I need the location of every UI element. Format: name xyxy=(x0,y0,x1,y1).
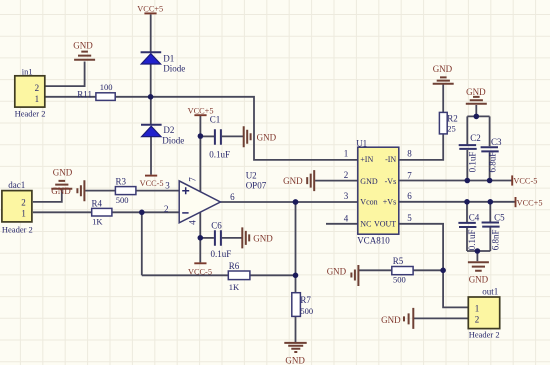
svg-text:GND: GND xyxy=(469,274,489,284)
wire R6 to node D xyxy=(250,274,296,276)
svg-text:3: 3 xyxy=(344,191,349,201)
svg-text:2: 2 xyxy=(164,204,169,214)
svg-text:R5: R5 xyxy=(393,256,404,266)
wire C6 to GND xyxy=(222,237,242,239)
wire C4 bottom xyxy=(466,228,468,251)
capacitor C1 xyxy=(215,129,221,145)
junction C5 top xyxy=(488,199,494,205)
resistor R3 xyxy=(115,187,135,195)
capacitor C6 xyxy=(215,230,221,246)
svg-text:0.1uF: 0.1uF xyxy=(467,230,477,251)
power port VCC+5 right xyxy=(515,197,517,207)
wire GND stem to node F xyxy=(475,105,477,116)
connector dac1 xyxy=(2,191,32,222)
svg-text:8: 8 xyxy=(407,149,412,159)
junction node C xyxy=(139,210,145,216)
IC U1 VCA810 xyxy=(358,147,399,234)
svg-text:R7: R7 xyxy=(300,295,311,305)
svg-text:VCC+5: VCC+5 xyxy=(137,5,163,14)
capacitor C4 xyxy=(458,223,476,227)
ground symbol below C4 C5 (earth) xyxy=(468,262,489,270)
svg-text:GND: GND xyxy=(466,87,486,97)
svg-text:U2: U2 xyxy=(246,171,257,181)
wire VCC+5 to D1 cathode xyxy=(150,14,152,52)
connector out1 xyxy=(468,297,499,329)
svg-text:C1: C1 xyxy=(210,115,221,125)
power port VCC+5 top xyxy=(144,12,156,14)
ground symbol at out1 pin2 (horizontal earth) xyxy=(404,308,413,329)
wire C4 top xyxy=(466,202,468,222)
ground symbol at U1 pin2 (horizontal earth) xyxy=(307,170,314,191)
svg-text:+Vs: +Vs xyxy=(383,198,396,207)
svg-text:VOUT: VOUT xyxy=(374,220,396,229)
pin names U1 left xyxy=(360,155,378,229)
wire feedback to R6 xyxy=(142,274,229,276)
svg-text:VCC-5: VCC-5 xyxy=(188,267,212,276)
wire node C feedback vertical xyxy=(141,212,143,275)
pin numbers U1 left xyxy=(344,149,349,224)
pin names U1 right xyxy=(374,155,396,229)
op-amp U2 xyxy=(179,181,220,223)
svg-text:6.8nF: 6.8nF xyxy=(490,230,500,251)
wire C5 bottom xyxy=(489,227,491,251)
wire node F to C2 and C3 tops xyxy=(467,115,489,117)
wire op-amp pin4 to node E xyxy=(199,212,201,237)
wire U1 pin8 to R2 xyxy=(399,134,444,160)
svg-text:1: 1 xyxy=(35,94,40,104)
power port VCC+5 at C1 xyxy=(194,114,206,116)
wire D2 anode to VCC-5 xyxy=(150,135,152,174)
junction C4 top xyxy=(464,199,470,205)
svg-text:C6: C6 xyxy=(211,221,222,231)
capacitor C5 xyxy=(482,223,500,227)
wire GND to U1 pin2 xyxy=(315,180,358,182)
svg-text:C2: C2 xyxy=(470,133,481,143)
svg-text:R2: R2 xyxy=(447,113,458,123)
svg-text:GND: GND xyxy=(433,64,453,74)
svg-text:3: 3 xyxy=(165,181,170,191)
ground symbol at in1 (inverted earth) xyxy=(74,52,95,60)
wire GND to R5 xyxy=(359,269,392,271)
ground symbol above C2 C3 (inverted earth) xyxy=(466,97,487,104)
svg-text:GND: GND xyxy=(257,133,277,143)
svg-text:100: 100 xyxy=(100,82,113,92)
svg-text:GND: GND xyxy=(51,186,71,196)
wire R3 to op-amp pin3 xyxy=(136,190,179,192)
svg-text:D1: D1 xyxy=(163,53,174,63)
junction C3 bottom xyxy=(487,178,493,184)
wire node D to R7 xyxy=(295,275,297,292)
svg-text:2: 2 xyxy=(21,197,26,207)
junction node D xyxy=(293,273,299,279)
svg-text:7: 7 xyxy=(187,177,197,182)
power port VCC-5 right xyxy=(511,175,513,185)
ground symbol above R2 (inverted earth) xyxy=(433,77,454,83)
wire C3 bottom to pin7 row xyxy=(489,153,491,181)
wire VCC+5 stem to node B xyxy=(199,115,201,136)
junction node F xyxy=(474,114,480,120)
wire D1 anode to node A xyxy=(150,64,152,97)
svg-text:6: 6 xyxy=(407,191,412,201)
diode D1 xyxy=(141,52,162,64)
junction op-amp output xyxy=(293,199,299,205)
wire GND to out1 pin2 xyxy=(414,317,468,319)
junction C2 bottom xyxy=(465,178,471,184)
wire node D to op-amp output row xyxy=(295,202,297,275)
power port VCC-5 at op-amp pin4 xyxy=(194,262,206,264)
svg-text:U1: U1 xyxy=(356,138,367,148)
resistor R2 xyxy=(439,112,447,133)
svg-text:25: 25 xyxy=(447,123,456,133)
power port VCC-5 below D2 xyxy=(145,175,157,177)
wire node B to C1 xyxy=(200,135,214,137)
ground symbol at C1 (horizontal earth) xyxy=(244,126,251,147)
svg-text:C4: C4 xyxy=(469,213,480,223)
wire C5 top xyxy=(489,202,491,222)
svg-text:Header 2: Header 2 xyxy=(2,224,33,234)
svg-text:4: 4 xyxy=(344,213,349,223)
svg-text:1: 1 xyxy=(475,304,480,314)
wire R5 to node H xyxy=(413,269,443,271)
svg-text:dac1: dac1 xyxy=(8,180,25,190)
svg-text:0.1uF: 0.1uF xyxy=(467,152,477,173)
pin numbers U1 right xyxy=(407,149,412,224)
wire U1 pin4 stub xyxy=(326,223,358,225)
wire R2 to GND stem xyxy=(442,85,444,113)
wire R7 to GND stem xyxy=(295,316,297,343)
wire node A to D2 cathode xyxy=(150,97,152,125)
wire C2 top xyxy=(466,116,468,144)
svg-text:-Vs: -Vs xyxy=(385,177,397,186)
wire C3 top xyxy=(489,116,491,146)
ground symbol below R7 (earth) xyxy=(284,343,306,352)
junction node H xyxy=(440,268,446,274)
svg-text:Diode: Diode xyxy=(162,136,184,146)
svg-text:Header 2: Header 2 xyxy=(15,109,46,119)
wire GND to R3 xyxy=(85,190,115,192)
ground symbol left of R3 (horizontal earth) xyxy=(77,180,84,201)
svg-text:GND: GND xyxy=(53,168,73,178)
wire node A to U1 pin1 xyxy=(151,97,358,160)
svg-text:-IN: -IN xyxy=(385,155,396,164)
resistor R5 xyxy=(392,267,413,275)
resistor R7 xyxy=(292,293,301,317)
svg-text:500: 500 xyxy=(393,275,406,285)
ground symbol at C6 (horizontal earth) xyxy=(242,227,249,248)
svg-text:2: 2 xyxy=(344,170,349,180)
resistor R4 xyxy=(92,208,112,216)
svg-text:VCA810: VCA810 xyxy=(357,235,390,245)
svg-text:5: 5 xyxy=(407,213,412,223)
wire U1 pin5 to out1 pin1 xyxy=(399,224,469,308)
junction node E xyxy=(198,235,204,241)
ground symbol at R5 (horizontal earth) xyxy=(351,265,358,286)
wire in1 pin2 to GND xyxy=(45,62,85,87)
svg-text:R11: R11 xyxy=(77,90,92,100)
wire op-amp output to U1 pin3 xyxy=(220,201,357,203)
svg-text:Vcon: Vcon xyxy=(360,198,377,207)
wire R11 to node A xyxy=(115,96,150,98)
junction node G xyxy=(475,248,481,254)
svg-text:7: 7 xyxy=(407,170,412,180)
svg-text:1K: 1K xyxy=(92,216,103,226)
svg-text:Diode: Diode xyxy=(163,63,185,73)
svg-text:6.8uF: 6.8uF xyxy=(488,152,498,173)
wire C1 to GND xyxy=(222,135,244,137)
svg-text:VCC-5: VCC-5 xyxy=(140,179,164,188)
svg-text:R6: R6 xyxy=(229,261,240,271)
svg-text:500: 500 xyxy=(300,306,313,316)
wire C2 bottom to pin7 row xyxy=(466,150,468,181)
svg-text:1: 1 xyxy=(21,208,26,218)
svg-text:VCC+5: VCC+5 xyxy=(517,198,543,207)
svg-text:0.1uF: 0.1uF xyxy=(209,150,230,160)
svg-text:GND: GND xyxy=(283,176,303,186)
svg-text:2: 2 xyxy=(35,83,40,93)
resistor R11 xyxy=(96,93,115,101)
svg-text:1: 1 xyxy=(344,149,349,159)
wire node G to GND stem xyxy=(476,251,478,261)
wire C4 C5 bottoms to GND node G xyxy=(467,250,490,252)
resistor R6 xyxy=(228,271,250,280)
capacitor C3 xyxy=(481,147,499,151)
junction node A xyxy=(148,94,154,100)
svg-text:NC: NC xyxy=(360,220,371,229)
svg-text:GND: GND xyxy=(327,266,347,276)
svg-text:OP07: OP07 xyxy=(246,181,267,191)
svg-text:C5: C5 xyxy=(494,213,505,223)
svg-text:C3: C3 xyxy=(491,137,502,147)
svg-text:Header 2: Header 2 xyxy=(469,330,500,340)
svg-text:out1: out1 xyxy=(482,287,498,297)
svg-text:1K: 1K xyxy=(229,282,240,292)
wire in1 pin1 to R11 xyxy=(45,96,96,98)
wire U1 pin6 to VCC+5 xyxy=(399,201,515,203)
capacitor C2 xyxy=(459,145,477,149)
wire U1 pin7 to VCC-5 xyxy=(399,180,512,182)
svg-text:GND: GND xyxy=(360,177,378,186)
diode D2 xyxy=(141,125,162,137)
svg-text:GND: GND xyxy=(285,355,305,365)
wire node E to VCC-5 stem xyxy=(199,238,201,263)
svg-text:in1: in1 xyxy=(22,67,33,77)
wire node E to C6 xyxy=(200,237,214,239)
wire R4 to op-amp pin2 xyxy=(112,211,179,213)
svg-text:4: 4 xyxy=(188,220,198,225)
svg-text:0.1uF: 0.1uF xyxy=(211,249,232,259)
svg-text:R4: R4 xyxy=(92,198,103,208)
svg-text:VCC-5: VCC-5 xyxy=(513,177,537,186)
wire dac1 pin2 to GND xyxy=(33,190,62,202)
svg-text:GND: GND xyxy=(253,234,273,244)
svg-text:6: 6 xyxy=(230,192,235,202)
junction node B xyxy=(198,133,204,139)
svg-text:GND: GND xyxy=(381,315,401,325)
wire dac1 pin1 to R4 xyxy=(33,211,92,213)
connector in1 xyxy=(15,76,45,107)
svg-text:+IN: +IN xyxy=(360,155,373,164)
svg-text:GND: GND xyxy=(73,41,93,51)
svg-text:D2: D2 xyxy=(163,125,174,135)
svg-text:2: 2 xyxy=(475,315,480,325)
svg-text:R3: R3 xyxy=(116,177,127,187)
wire node B to op-amp pin7 xyxy=(199,136,201,192)
ground symbol at dac1 (inverted earth) xyxy=(51,181,72,189)
svg-text:500: 500 xyxy=(116,195,129,205)
